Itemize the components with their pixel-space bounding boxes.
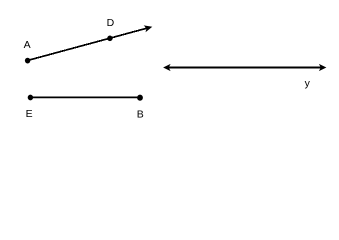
node A dot <box>25 58 30 64</box>
node D dot <box>107 36 112 42</box>
svg-text:B: B <box>137 109 144 121</box>
svg-text:D: D <box>107 17 115 29</box>
arrowhead of ray AD <box>144 23 154 32</box>
node E dot <box>28 95 33 101</box>
wire ray A through D <box>28 28 150 61</box>
svg-text:E: E <box>26 108 33 120</box>
svg-text:A: A <box>24 39 31 51</box>
arrowhead left of line y <box>163 64 171 71</box>
node B dot <box>137 95 143 101</box>
svg-text:y: y <box>305 78 311 90</box>
arrowhead right of line y <box>319 64 327 71</box>
line y (double arrow) <box>168 67 322 69</box>
segment EB <box>31 96 141 98</box>
